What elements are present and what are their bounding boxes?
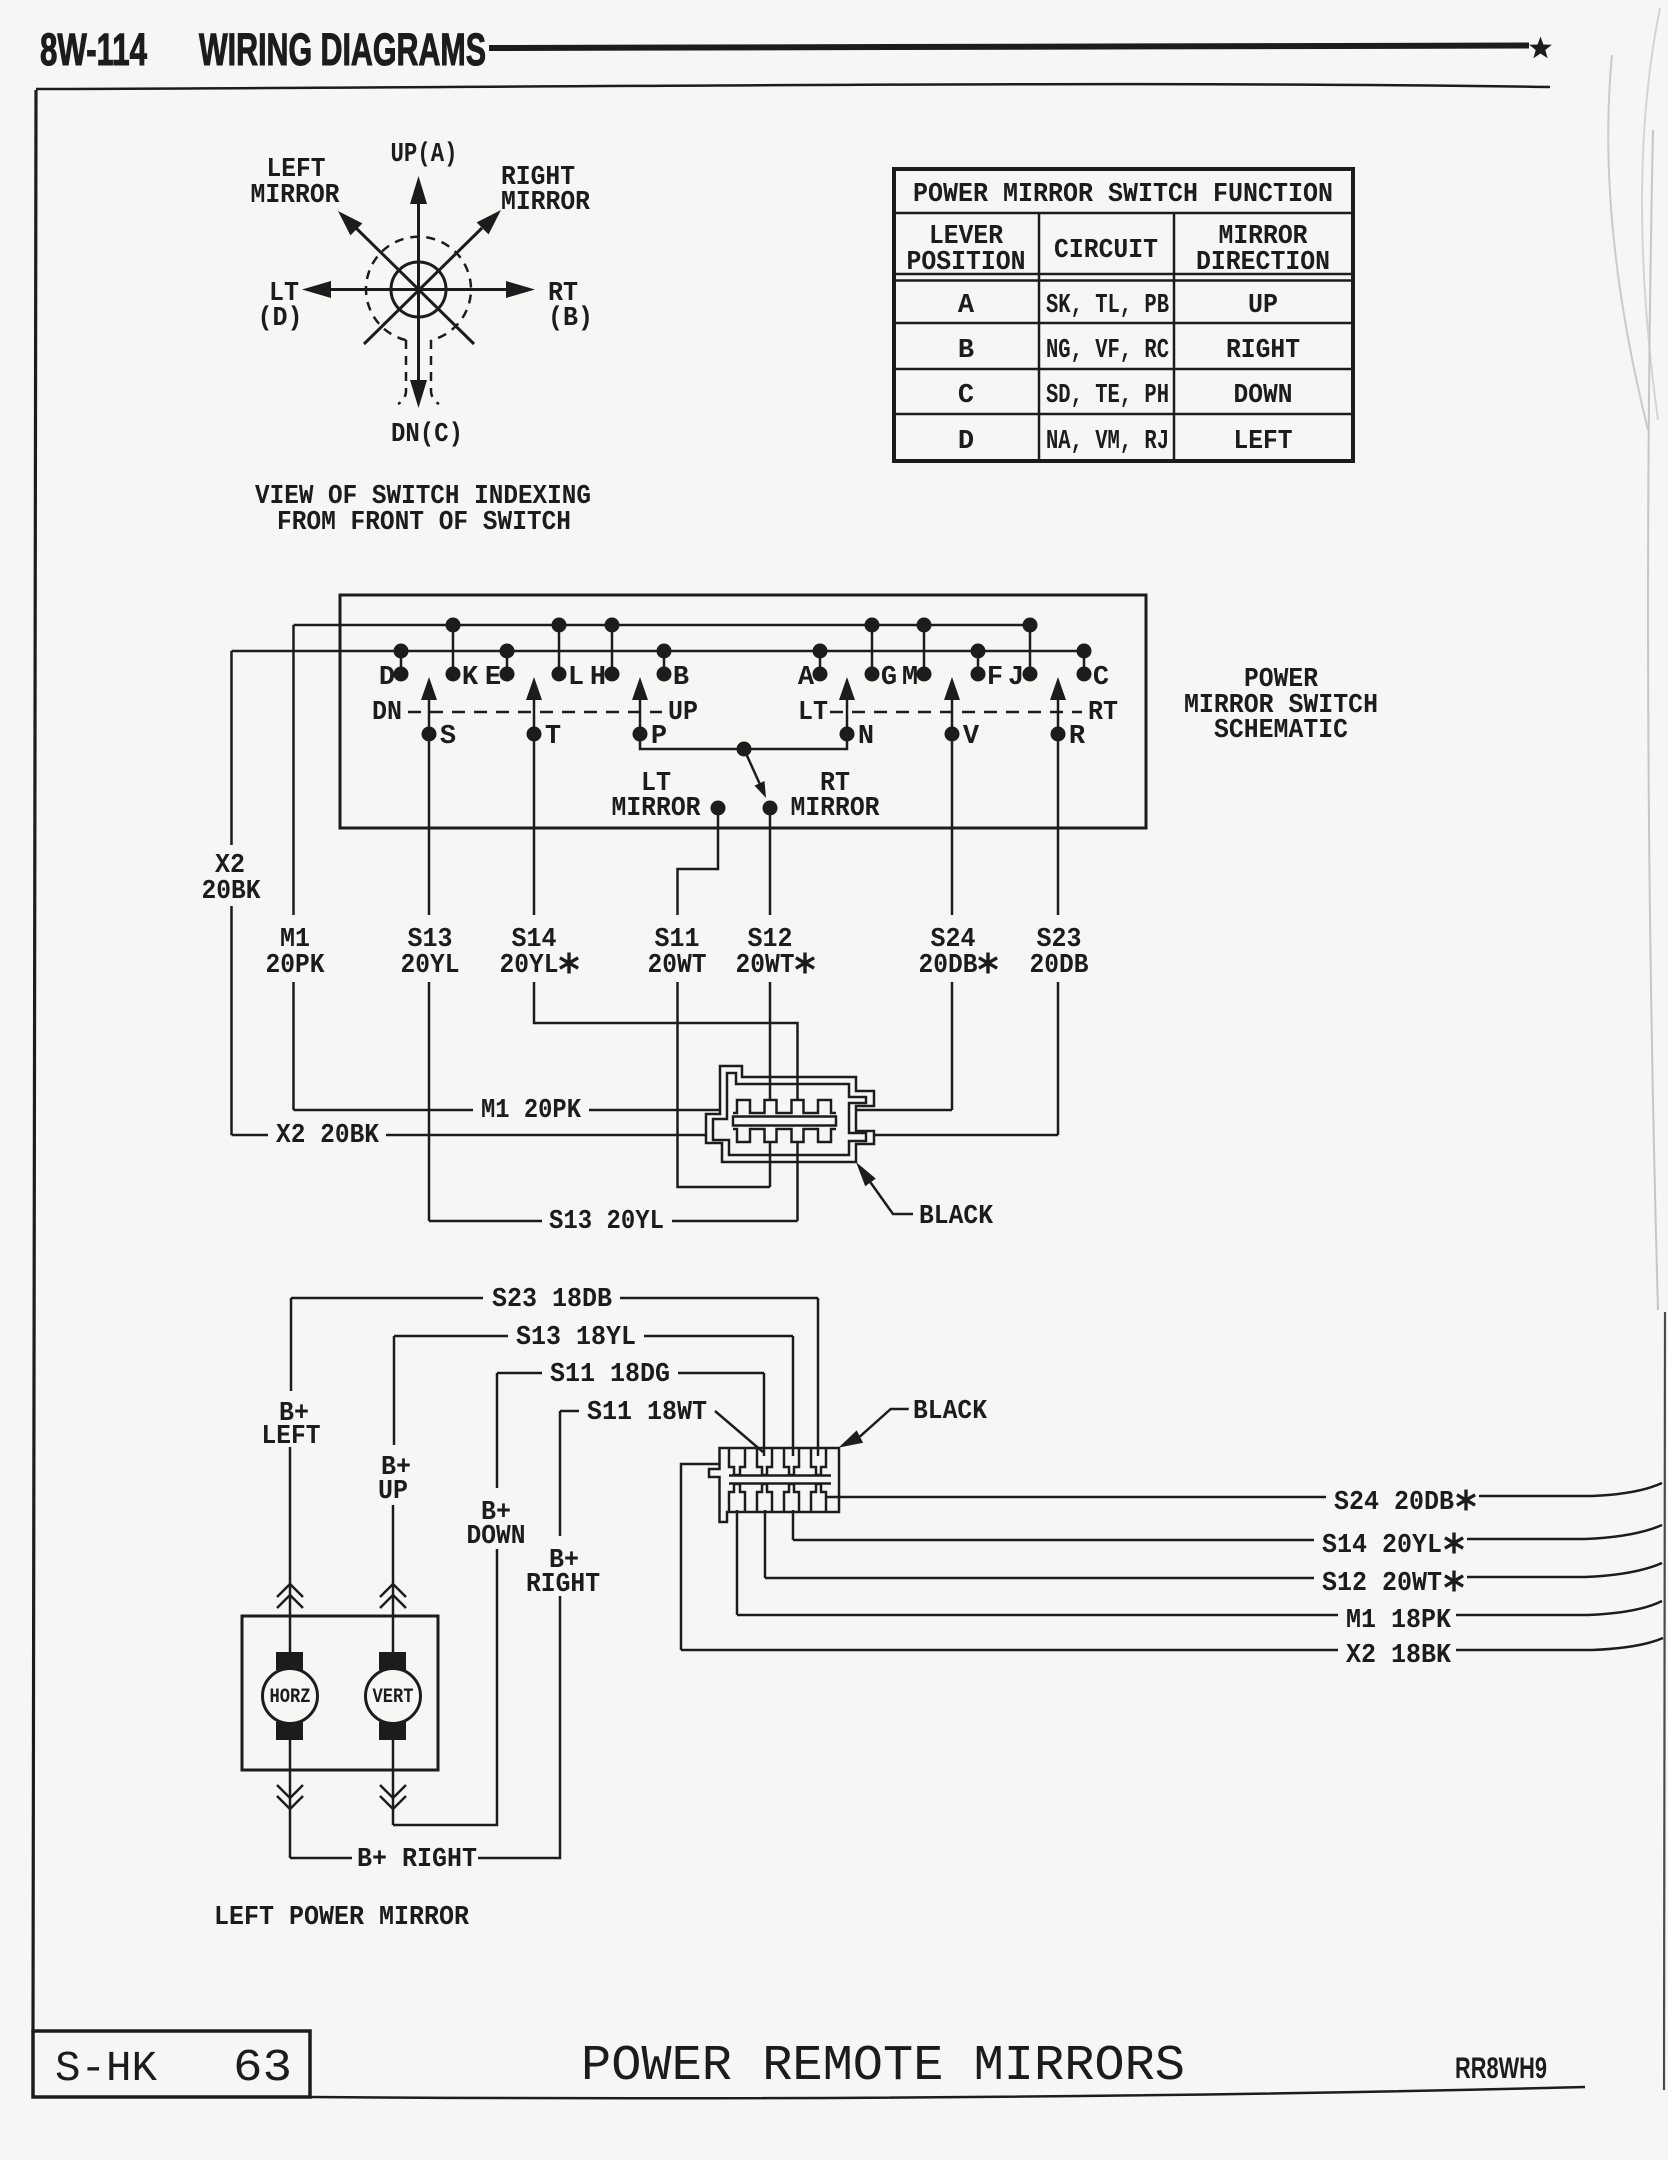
leader BLACK C2 bbox=[860, 1409, 909, 1437]
svg-text:UP(A): UP(A) bbox=[391, 140, 458, 170]
svg-text:20WT: 20WT bbox=[736, 951, 795, 981]
svg-text:D: D bbox=[379, 663, 395, 693]
svg-text:20YL: 20YL bbox=[500, 951, 559, 981]
wire S13 18YL lead-out bbox=[644, 1335, 793, 1338]
wire M1 20PK lead-in bbox=[294, 1109, 474, 1112]
wire S13 upper bbox=[428, 734, 431, 915]
wire S23 lower bbox=[1057, 982, 1060, 1135]
svg-text:SK, TL, PB: SK, TL, PB bbox=[1046, 291, 1169, 321]
asterisk S14 18 bbox=[1445, 1533, 1463, 1554]
svg-text:VERT: VERT bbox=[373, 1686, 414, 1709]
stub from lower bus x=664 bbox=[663, 651, 666, 674]
stub from upper bus x=1030 bbox=[1029, 625, 1032, 674]
scan artifact curl 1 bbox=[1608, 55, 1648, 430]
wire S11 18DG lead-in bbox=[497, 1372, 542, 1375]
pin C2 top S13 bbox=[792, 1336, 795, 1456]
junction wiper bbox=[737, 742, 752, 757]
svg-text:C: C bbox=[958, 381, 974, 411]
asterisk S14 bbox=[560, 953, 578, 974]
wire S13 lower bbox=[428, 982, 431, 1221]
svg-text:S23 18DB: S23 18DB bbox=[492, 1285, 612, 1315]
svg-text:20DB: 20DB bbox=[919, 951, 978, 981]
wire M1 lower bbox=[292, 982, 295, 1110]
svg-text:X2 18BK: X2 18BK bbox=[1346, 1641, 1452, 1671]
connector C2 outline bbox=[709, 1448, 839, 1522]
wiper arrowhead bbox=[755, 781, 767, 798]
svg-text:B: B bbox=[958, 336, 974, 366]
junction lower bus x=507 bbox=[500, 644, 515, 659]
svg-text:LT: LT bbox=[798, 698, 828, 728]
svg-text:DN: DN bbox=[372, 698, 402, 728]
svg-text:DOWN: DOWN bbox=[467, 1522, 526, 1552]
svg-text:X2 20BK: X2 20BK bbox=[276, 1121, 380, 1151]
lever axis right-mirror shaft bbox=[364, 228, 482, 344]
svg-text:RIGHT: RIGHT bbox=[526, 1570, 600, 1600]
contact arrowhead R bbox=[1050, 677, 1066, 700]
wire X2 20BK lead-in bbox=[232, 1134, 269, 1137]
stub from lower bus x=507 bbox=[506, 651, 509, 674]
svg-text:DOWN: DOWN bbox=[1234, 381, 1293, 411]
pin C1 bottom S13 bbox=[796, 1142, 799, 1221]
leader arrowhead BLACK C2 bbox=[839, 1430, 864, 1447]
stub from upper bus x=612 bbox=[611, 625, 614, 674]
stub from upper bus x=559 bbox=[558, 625, 561, 674]
wire S11 18WT lead-in bbox=[560, 1410, 579, 1413]
svg-text:FROM FRONT OF SWITCH: FROM FRONT OF SWITCH bbox=[277, 508, 571, 538]
wire S14 20YL* tail bbox=[1467, 1525, 1662, 1539]
wire S14 20YL* lead bbox=[793, 1539, 1314, 1542]
contact arrowhead T bbox=[526, 677, 542, 700]
terminal K bbox=[446, 667, 461, 682]
table row line C-D bbox=[894, 413, 1353, 416]
pin C2 top S23 bbox=[817, 1298, 820, 1456]
svg-text:S: S bbox=[440, 722, 456, 752]
svg-text:UP: UP bbox=[668, 698, 698, 728]
junction lower bus x=664 bbox=[657, 644, 672, 659]
contact arrow shaft T bbox=[533, 698, 536, 734]
wire X2 upper bbox=[230, 651, 233, 845]
svg-text:B: B bbox=[673, 663, 689, 693]
contact dot N bbox=[840, 727, 855, 742]
svg-text:20BK: 20BK bbox=[202, 877, 262, 907]
svg-text:LEFT POWER MIRROR: LEFT POWER MIRROR bbox=[214, 1903, 470, 1933]
terminal A bbox=[813, 667, 828, 682]
switch lever channel dashed left bbox=[398, 340, 406, 404]
svg-text:H: H bbox=[590, 663, 606, 693]
table title separator bbox=[894, 212, 1353, 215]
contact arrow shaft P bbox=[639, 698, 642, 734]
wire M1 upper bbox=[292, 625, 295, 915]
break chevrons B+ UP bbox=[380, 1584, 406, 1608]
svg-text:SD, TE, PH: SD, TE, PH bbox=[1046, 381, 1169, 411]
stub from upper bus x=924 bbox=[923, 625, 926, 674]
svg-text:20PK: 20PK bbox=[266, 951, 326, 981]
svg-text:M1 18PK: M1 18PK bbox=[1346, 1606, 1452, 1636]
stub from lower bus x=1084 bbox=[1083, 651, 1086, 674]
arrowhead DN(C) bbox=[410, 380, 427, 408]
svg-text:RIGHT: RIGHT bbox=[1226, 336, 1300, 366]
svg-text:G: G bbox=[881, 663, 897, 693]
header star bbox=[1529, 37, 1552, 59]
wire X2 20BK lead-out bbox=[386, 1134, 707, 1137]
terminal M bbox=[917, 667, 932, 682]
svg-text:UP: UP bbox=[1248, 291, 1278, 321]
wire P to N link bbox=[640, 734, 847, 749]
wire X2 18BK tail bbox=[1456, 1638, 1663, 1650]
svg-text:A: A bbox=[798, 663, 815, 693]
svg-text:SCHEMATIC: SCHEMATIC bbox=[1214, 716, 1348, 746]
terminal G bbox=[865, 667, 880, 682]
terminal L bbox=[552, 667, 567, 682]
wire B+ UP upper bbox=[393, 1336, 396, 1445]
arrowhead LT(D) bbox=[302, 281, 331, 298]
wire S23 branch right of C1 bbox=[874, 1134, 1058, 1137]
junction upper bus x=1030 bbox=[1023, 618, 1038, 633]
terminal H bbox=[605, 667, 620, 682]
contact dot T bbox=[527, 727, 542, 742]
svg-text:V: V bbox=[963, 722, 980, 752]
contact arrow shaft N bbox=[846, 698, 849, 734]
table column line 2 bbox=[1173, 213, 1176, 461]
svg-text:L: L bbox=[568, 663, 584, 693]
connector C1 outline bbox=[706, 1066, 874, 1162]
contact arrow shaft S bbox=[428, 698, 431, 734]
svg-text:R: R bbox=[1069, 722, 1086, 752]
wire S11 jog bbox=[678, 815, 719, 915]
contact arrowhead N bbox=[839, 677, 855, 700]
pin C2 bottom S12 bbox=[764, 1510, 767, 1578]
motor VERT bbox=[366, 1652, 421, 1740]
wire S14 upper bbox=[533, 734, 536, 915]
wire S24 branch right of C1 bbox=[856, 1109, 952, 1112]
junction upper bus x=453 bbox=[446, 618, 461, 633]
table outer border bbox=[894, 169, 1353, 461]
svg-text:DN(C): DN(C) bbox=[391, 420, 463, 450]
wire X2 18BK lead bbox=[681, 1649, 1338, 1652]
svg-text:M: M bbox=[902, 663, 918, 693]
svg-text:MIRROR: MIRROR bbox=[612, 794, 702, 824]
svg-text:D: D bbox=[958, 427, 974, 457]
wire C2 left wrap bbox=[681, 1464, 720, 1650]
wire VERT bottom bbox=[392, 1740, 395, 1825]
svg-text:20WT: 20WT bbox=[648, 951, 707, 981]
lever axis left-mirror shaft bbox=[356, 228, 474, 344]
asterisk S24 18 bbox=[1457, 1490, 1475, 1511]
switch bezel dashed outline bbox=[366, 237, 471, 340]
table header double line upper bbox=[894, 273, 1353, 276]
arrowhead RIGHT MIRROR bbox=[477, 210, 501, 234]
motor HORZ bbox=[263, 1652, 318, 1740]
wire M1 18PK tail bbox=[1456, 1601, 1662, 1615]
asterisk S12 18 bbox=[1445, 1571, 1463, 1592]
wiper arrow shaft bbox=[744, 749, 760, 783]
wire S11 18DG lead-out bbox=[678, 1372, 764, 1375]
dashed lever travel line DN-UP bbox=[408, 711, 662, 714]
stub from lower bus x=401 bbox=[400, 651, 403, 674]
wire S11 18WT diagonal bbox=[715, 1411, 763, 1452]
arrowhead RT(B) bbox=[506, 281, 535, 298]
terminal B bbox=[657, 667, 672, 682]
asterisk S24 bbox=[979, 953, 997, 974]
wire B+ UP lower bbox=[392, 1505, 395, 1652]
svg-text:WIRING DIAGRAMS: WIRING DIAGRAMS bbox=[199, 24, 486, 75]
svg-text:K: K bbox=[462, 663, 479, 693]
bus wire upper (M1) bbox=[294, 624, 1031, 627]
stub from upper bus x=453 bbox=[452, 625, 455, 674]
junction upper bus x=924 bbox=[917, 618, 932, 633]
junction lower bus x=401 bbox=[394, 644, 409, 659]
scan artifact edge light bbox=[1648, 130, 1658, 1310]
table row line A-B bbox=[894, 322, 1353, 325]
wire S23 upper bbox=[1057, 734, 1060, 915]
contact dot V bbox=[945, 727, 960, 742]
svg-text:S24 20DB: S24 20DB bbox=[1334, 1488, 1454, 1518]
wire S12 20WT* tail bbox=[1467, 1563, 1662, 1577]
svg-text:S14 20YL: S14 20YL bbox=[1322, 1531, 1442, 1561]
bus wire lower (X2) bbox=[232, 650, 1085, 653]
svg-text:MIRROR: MIRROR bbox=[791, 794, 881, 824]
svg-text:20YL: 20YL bbox=[401, 951, 460, 981]
break chevrons B+ LEFT bbox=[277, 1584, 303, 1608]
wire S24 upper bbox=[951, 734, 954, 915]
wire S24 20DB* tail bbox=[1479, 1483, 1662, 1496]
scan artifact curl 2 bbox=[1642, 8, 1660, 420]
junction upper bus x=559 bbox=[552, 618, 567, 633]
svg-text:MIRROR: MIRROR bbox=[501, 188, 591, 218]
wire S12 upper bbox=[769, 815, 772, 915]
svg-text:E: E bbox=[485, 663, 501, 693]
svg-text:S13 20YL: S13 20YL bbox=[549, 1207, 664, 1237]
terminal C bbox=[1077, 667, 1092, 682]
wire S13 20YL lead-in bbox=[429, 1220, 542, 1223]
terminal E bbox=[500, 667, 515, 682]
wire S24 20DB* lead bbox=[826, 1496, 1326, 1499]
table column line 1 bbox=[1038, 213, 1041, 461]
pin C2 bottom S14 bbox=[792, 1510, 795, 1540]
stub from lower bus x=978 bbox=[977, 651, 980, 674]
frame left border bbox=[33, 90, 36, 2031]
wire B+ DOWN lower bbox=[393, 1549, 497, 1825]
svg-text:UP: UP bbox=[378, 1477, 408, 1507]
svg-text:J: J bbox=[1008, 663, 1024, 693]
wire B+ DOWN upper bbox=[496, 1373, 499, 1488]
contact arrow shaft R bbox=[1057, 698, 1060, 734]
svg-text:RR8WH9: RR8WH9 bbox=[1455, 2052, 1547, 2085]
svg-text:BLACK: BLACK bbox=[919, 1202, 994, 1232]
wire B+ RIGHT bottom lead bbox=[290, 1857, 352, 1860]
wire M1 18PK lead bbox=[737, 1614, 1338, 1617]
switch lever channel dashed right bbox=[431, 340, 439, 404]
break chevrons VERT bottom bbox=[380, 1785, 406, 1809]
leader BLACK C1 bbox=[871, 1182, 914, 1214]
svg-text:A: A bbox=[958, 291, 975, 321]
svg-text:S11 18WT: S11 18WT bbox=[587, 1398, 707, 1428]
svg-text:63: 63 bbox=[233, 2043, 292, 2094]
junction upper bus x=872 bbox=[865, 618, 880, 633]
svg-text:T: T bbox=[545, 722, 561, 752]
terminal J bbox=[1023, 667, 1038, 682]
svg-text:MIRROR: MIRROR bbox=[251, 181, 341, 211]
wire S11 lower bbox=[678, 982, 771, 1187]
junction upper bus x=612 bbox=[605, 618, 620, 633]
contact dot R bbox=[1051, 727, 1066, 742]
contact arrowhead V bbox=[944, 677, 960, 700]
footer grid box bbox=[33, 2031, 310, 2097]
wire B+ RIGHT lower bbox=[478, 1596, 560, 1858]
wire S23 18DB lead-out bbox=[620, 1297, 818, 1300]
left power mirror box bbox=[242, 1616, 438, 1770]
svg-text:S11 18DG: S11 18DG bbox=[550, 1360, 670, 1390]
wire B+ LEFT upper bbox=[290, 1298, 293, 1391]
svg-text:LEFT: LEFT bbox=[1234, 427, 1293, 457]
terminal LT MIRROR bbox=[711, 801, 726, 816]
table header double line lower bbox=[894, 279, 1353, 282]
frame top border bbox=[36, 84, 1550, 89]
svg-text:(B): (B) bbox=[548, 304, 593, 334]
wire M1 20PK lead-out bbox=[589, 1109, 721, 1112]
svg-text:NA, VM, RJ: NA, VM, RJ bbox=[1046, 427, 1169, 457]
svg-text:POWER MIRROR SWITCH FUNCTION: POWER MIRROR SWITCH FUNCTION bbox=[913, 180, 1333, 210]
svg-text:B+ RIGHT: B+ RIGHT bbox=[357, 1845, 477, 1875]
junction lower bus x=820 bbox=[813, 644, 828, 659]
wire B+ LEFT lower bbox=[289, 1447, 292, 1652]
scan artifact edge dark bbox=[1664, 1312, 1665, 2090]
svg-text:NG, VF, RC: NG, VF, RC bbox=[1046, 336, 1169, 366]
wire S13 20YL lead-out bbox=[672, 1220, 798, 1223]
wire X2 lower bbox=[230, 906, 233, 1135]
frame bottom border bbox=[310, 2087, 1585, 2098]
svg-text:S-HK: S-HK bbox=[55, 2044, 157, 2093]
asterisk S12 bbox=[796, 953, 814, 974]
arrowhead LEFT MIRROR bbox=[338, 211, 362, 235]
contact dot S bbox=[422, 727, 437, 742]
terminal RT MIRROR bbox=[763, 801, 778, 816]
pin C1 bottom S11 bbox=[769, 1142, 772, 1187]
switch schematic box bbox=[340, 595, 1146, 828]
svg-text:8W-114: 8W-114 bbox=[40, 24, 147, 75]
svg-text:RT: RT bbox=[1088, 698, 1118, 728]
wire B+ RIGHT upper bbox=[559, 1411, 562, 1536]
svg-text:M1 20PK: M1 20PK bbox=[481, 1096, 582, 1126]
wire S23 18DB lead-in bbox=[291, 1297, 483, 1300]
wire S24 lower bbox=[951, 982, 954, 1110]
svg-text:20DB: 20DB bbox=[1030, 951, 1089, 981]
svg-text:CIRCUIT: CIRCUIT bbox=[1054, 236, 1158, 266]
lever axis LT-RT shaft bbox=[331, 288, 506, 291]
contact arrowhead P bbox=[632, 677, 648, 700]
svg-text:S12 20WT: S12 20WT bbox=[1322, 1569, 1442, 1599]
dashed lever travel line LT-RT bbox=[830, 711, 1082, 714]
svg-text:F: F bbox=[987, 663, 1003, 693]
leader arrowhead BLACK C1 bbox=[856, 1162, 876, 1186]
svg-text:C: C bbox=[1093, 663, 1109, 693]
contact arrowhead S bbox=[421, 677, 437, 700]
svg-text:POWER REMOTE MIRRORS: POWER REMOTE MIRRORS bbox=[581, 2038, 1185, 2095]
pin C2 bottom M1 bbox=[736, 1510, 739, 1615]
wire HORZ bottom bbox=[289, 1740, 292, 1858]
svg-text:DIRECTION: DIRECTION bbox=[1196, 248, 1330, 278]
wire S12 20WT* lead bbox=[765, 1577, 1314, 1580]
lever axis UP-DN shaft bbox=[417, 204, 420, 380]
stub from lower bus x=820 bbox=[819, 651, 822, 674]
wire S12 lower bbox=[769, 982, 772, 1100]
junction lower bus x=1084 bbox=[1077, 644, 1092, 659]
svg-text:(D): (D) bbox=[258, 304, 303, 334]
terminal D bbox=[394, 667, 409, 682]
wire S14 lower bbox=[534, 982, 798, 1100]
svg-text:BLACK: BLACK bbox=[913, 1397, 988, 1427]
junction lower bus x=978 bbox=[971, 644, 986, 659]
wire S13 18YL lead-in bbox=[394, 1335, 508, 1338]
svg-text:S13 18YL: S13 18YL bbox=[516, 1323, 636, 1353]
pin C2 top S11DG bbox=[763, 1373, 766, 1456]
table row line B-C bbox=[894, 368, 1353, 371]
contact dot P bbox=[633, 727, 648, 742]
svg-text:N: N bbox=[858, 722, 874, 752]
terminal F bbox=[971, 667, 986, 682]
break chevrons HORZ bottom bbox=[277, 1785, 303, 1809]
switch knob circle bbox=[391, 262, 446, 317]
arrowhead UP(A) bbox=[410, 176, 427, 204]
svg-text:P: P bbox=[651, 722, 667, 752]
contact arrow shaft V bbox=[951, 698, 954, 734]
svg-text:HORZ: HORZ bbox=[270, 1686, 311, 1709]
header rule bbox=[489, 46, 1529, 49]
svg-text:POSITION: POSITION bbox=[907, 248, 1026, 278]
stub from upper bus x=872 bbox=[871, 625, 874, 674]
